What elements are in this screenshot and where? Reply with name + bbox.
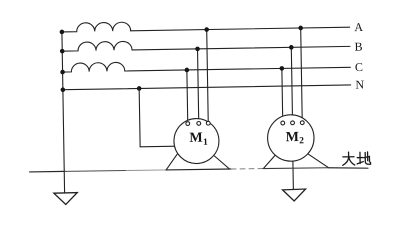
svg-text:N: N	[355, 77, 364, 91]
node: M2 tap on line C	[280, 66, 285, 71]
svg-text:C: C	[355, 60, 363, 74]
wire: phase line C	[125, 67, 351, 71]
node: star point junction on line C	[60, 70, 65, 75]
wire: M1 frame bonding conductor from N	[139, 88, 176, 147]
node: M1 tap on line C	[185, 68, 190, 73]
wire: neutral line N	[63, 85, 351, 90]
pin: M1 terminal C	[186, 122, 190, 126]
wire: M1 mounting leg right	[206, 148, 229, 169]
svg-text:M: M	[286, 130, 299, 145]
label: earth (hanzi DA)	[343, 152, 355, 165]
motor M1 body	[174, 118, 220, 164]
node: M2 tap on line B	[289, 45, 294, 50]
wire: motor M1 phase A drop	[207, 30, 209, 122]
wire: motor M1 phase C drop	[186, 70, 189, 122]
node: star point junction on line N	[61, 87, 66, 92]
pin: M2 terminal A	[300, 121, 304, 125]
node: M1 tap on line B	[195, 47, 200, 52]
wire: motor M2 phase C drop	[281, 68, 284, 121]
inductor: phase B source winding	[62, 41, 132, 51]
svg-text:A: A	[354, 20, 363, 34]
node: M1 tap on line A	[204, 27, 209, 32]
wire: M2 mounting leg left	[263, 148, 282, 168]
pin: M2 terminal B	[291, 121, 295, 125]
motor M2 body	[267, 114, 314, 161]
inductor: phase C source winding	[62, 62, 124, 72]
node: star point junction on line A	[60, 30, 65, 35]
node: star point junction on line B	[60, 49, 65, 54]
pin: M2 terminal C	[281, 121, 285, 125]
wire: motor M1 phase B drop	[198, 49, 199, 122]
wire: phase line B	[132, 46, 350, 50]
wire: earthing conductor from transformer star point (left vertical)	[62, 32, 65, 193]
svg-text:M: M	[189, 131, 202, 146]
wire: earth surface line	[30, 170, 65, 173]
label: earth (hanzi DI)	[357, 152, 371, 165]
svg-text:2: 2	[299, 136, 304, 146]
svg-text:B: B	[354, 39, 362, 53]
ground: earth electrode of motor M2 frame	[283, 189, 306, 201]
wire: M1 mounting leg left	[166, 149, 182, 170]
inductor: phase A source winding	[62, 22, 131, 32]
wire: motor M2 phase B drop	[291, 47, 292, 121]
wire: M2 frame earthing conductor	[292, 157, 295, 190]
node: tap on N for M1 frame bonding	[137, 86, 142, 91]
node: M2 tap on line A	[298, 26, 303, 31]
pin: M1 terminal B	[197, 121, 201, 125]
wire: motor M2 phase A drop	[301, 28, 303, 121]
wire: M2 mounting leg right	[300, 148, 328, 168]
svg-text:1: 1	[203, 138, 208, 148]
wire: phase line A	[131, 27, 350, 31]
pin: M1 terminal A	[206, 121, 210, 125]
ground: earth electrode of transformer star point	[54, 193, 78, 205]
